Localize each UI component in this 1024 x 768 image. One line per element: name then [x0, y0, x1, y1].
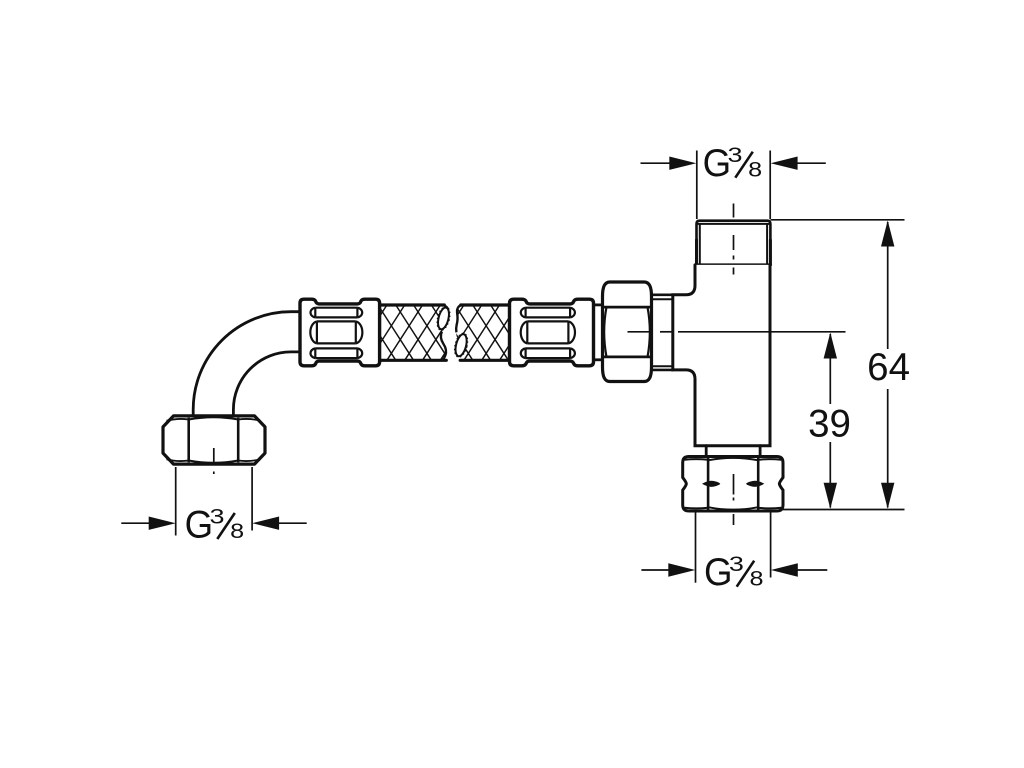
svg-text:3: 3 [210, 505, 225, 529]
svg-text:8: 8 [230, 519, 244, 543]
svg-text:8: 8 [748, 158, 762, 182]
svg-text:64: 64 [867, 346, 910, 389]
svg-text:8: 8 [750, 567, 764, 591]
svg-text:39: 39 [808, 403, 851, 446]
svg-text:3: 3 [728, 143, 743, 167]
svg-text:3: 3 [729, 552, 744, 576]
